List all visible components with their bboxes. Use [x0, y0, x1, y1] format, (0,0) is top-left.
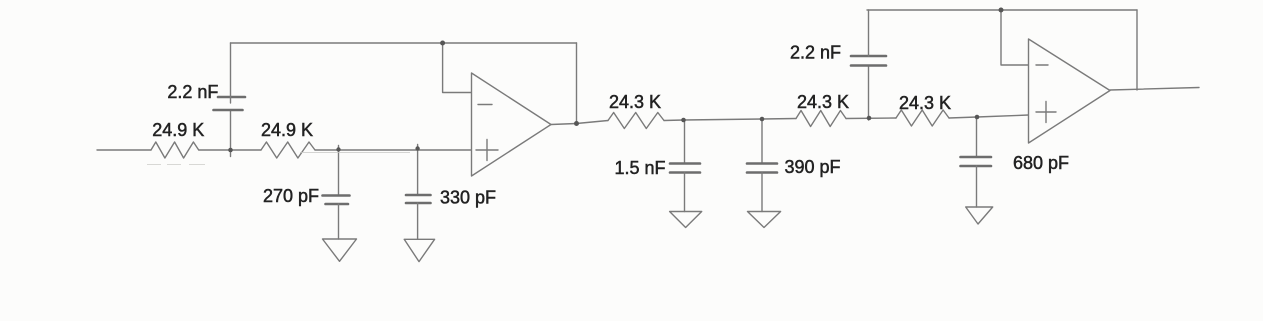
wire op-amp U1 inverting input drop: [443, 43, 472, 93]
capacitor C2 270pF plates: [323, 196, 350, 205]
svg-text:330 pF: 330 pF: [440, 188, 496, 208]
svg-text:1.5 nF: 1.5 nF: [615, 158, 666, 178]
capacitor C5 390pF branch: [761, 119, 763, 164]
capacitor C2 270pF stem to ground: [338, 204, 340, 239]
capacitor C1 2.2nF branch below: [230, 110, 232, 157]
wire node D to node E: [684, 119, 763, 120]
wire U1 output to R3: [577, 121, 609, 124]
wire scan echo under node B to node C: [300, 151, 410, 153]
resistor R2 24.9K: [261, 142, 315, 158]
resistor R3 24.3K: [608, 113, 664, 129]
wire feedback right vertical stage1: [576, 43, 578, 124]
capacitor C4 1.5nF branch: [684, 120, 686, 164]
svg-text:24.3 K: 24.3 K: [899, 93, 951, 113]
wire R2 to op-amp U1: [315, 149, 472, 151]
svg-text:390 pF: 390 pF: [785, 157, 841, 177]
wire R1 to node A: [199, 149, 261, 151]
capacitor C4 1.5nF plates: [670, 164, 700, 173]
op-amp U2: [1029, 39, 1111, 143]
svg-text:24.9 K: 24.9 K: [152, 120, 204, 140]
node U1 output junction: [574, 121, 579, 126]
capacitor C7 680pF stem to ground: [976, 166, 978, 207]
capacitor C6 2.2nF plates: [851, 56, 886, 66]
resistor R1 24.9K: [151, 142, 199, 158]
capacitor C5 390pF stem to ground: [761, 173, 763, 212]
op-amp U1: [472, 73, 552, 176]
node A junction: [228, 148, 233, 153]
capacitor C6 2.2nF branch above: [868, 10, 870, 56]
wire feedback top stage2: [867, 9, 1137, 11]
wire node G to op-amp U2: [977, 115, 1029, 117]
op-amp U2 plus sign: [1036, 111, 1056, 113]
node C junction: [415, 146, 419, 150]
node E junction: [760, 117, 765, 122]
resistor R4 24.3K: [796, 111, 846, 127]
svg-text:2.2 nF: 2.2 nF: [167, 82, 218, 102]
capacitor C1 2.2nF plates: [214, 97, 246, 110]
wire R5 to node G: [949, 117, 977, 118]
node D junction: [681, 118, 686, 123]
ground under C3: [404, 239, 434, 261]
node F junction: [867, 116, 872, 121]
capacitor C6 2.2nF branch below: [868, 66, 870, 121]
op-amp U1 plus sign: [476, 149, 498, 151]
svg-text:24.3 K: 24.3 K: [797, 92, 849, 112]
svg-text:270 pF: 270 pF: [263, 186, 319, 206]
ground under C4: [670, 212, 702, 228]
ground under C7: [966, 207, 993, 224]
wire R3 to node D: [664, 119, 684, 122]
capacitor C3 330pF stem to ground: [417, 203, 419, 239]
op-amp U1 minus sign: [478, 104, 492, 106]
capacitor C4 1.5nF stem to ground: [684, 173, 686, 212]
wire feedback right vertical stage2: [1136, 10, 1138, 90]
resistor R5 24.3K: [896, 110, 949, 126]
wire node E to R4: [762, 118, 796, 121]
svg-text:2.2 nF: 2.2 nF: [790, 43, 841, 63]
ground under C5: [748, 212, 781, 228]
wire op-amp U2 inverting input drop: [1001, 10, 1029, 65]
node top1 junction: [440, 41, 445, 46]
capacitor C3 330pF branch: [417, 145, 419, 196]
node B junction: [336, 147, 340, 151]
wire U1 output: [551, 124, 577, 125]
wire R4 to R5: [846, 117, 896, 120]
wire U2 output: [1110, 88, 1199, 91]
ground under C2: [323, 239, 357, 261]
capacitor C1 2.2nF branch above: [230, 43, 232, 103]
node G junction: [975, 115, 980, 120]
capacitor C5 390pF plates: [747, 164, 777, 173]
capacitor C7 680pF branch: [976, 117, 978, 157]
svg-text:680 pF: 680 pF: [1013, 153, 1069, 173]
node top2 junction: [999, 8, 1004, 13]
svg-text:24.9 K: 24.9 K: [261, 120, 313, 140]
wire input: [97, 149, 151, 151]
svg-text:24.3 K: 24.3 K: [609, 92, 661, 112]
capacitor C2 270pF branch: [338, 146, 340, 196]
wire scan artifact dashes under R1: [147, 164, 205, 166]
capacitor C7 680pF plates: [961, 157, 992, 166]
op-amp U2 minus sign: [1036, 64, 1048, 66]
capacitor C3 330pF plates: [406, 195, 431, 203]
wire feedback top stage1: [231, 42, 577, 44]
